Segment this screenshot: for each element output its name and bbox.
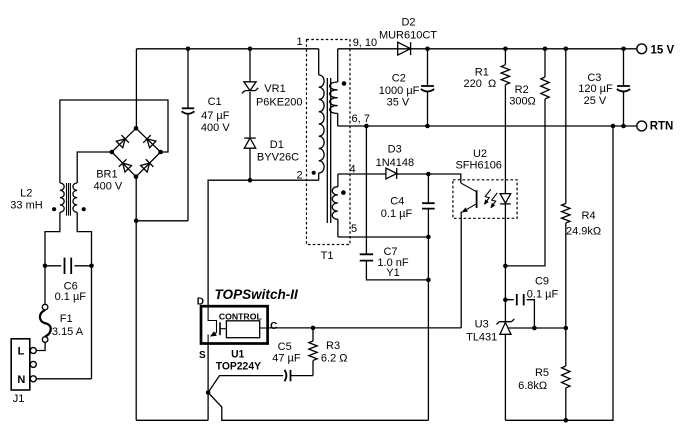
svg-text:TL431: TL431 <box>466 331 497 343</box>
node C6 left <box>43 264 48 269</box>
diode D1 <box>244 138 299 163</box>
node C1 return junction <box>134 219 139 224</box>
optocoupler U2 phototransistor <box>460 183 476 215</box>
node R3 top on control line <box>311 326 316 331</box>
svg-text:6.8kΩ: 6.8kΩ <box>518 380 547 392</box>
capacitor C2 <box>379 49 434 126</box>
wire pin4 line to D3 and opto collector <box>338 174 461 183</box>
svg-text:D1: D1 <box>270 139 284 151</box>
resistor R1 <box>464 49 510 194</box>
node LED cathode / R2 junction <box>503 264 508 269</box>
svg-text:1: 1 <box>296 36 302 48</box>
capacitor C1 <box>182 49 231 221</box>
wire BR1 left vertex to L2 right winding <box>77 152 112 183</box>
terminal RTN <box>637 121 674 133</box>
svg-text:TOP224Y: TOP224Y <box>216 361 262 373</box>
node R2 top <box>543 47 548 52</box>
svg-text:47 µF: 47 µF <box>201 110 230 122</box>
U1 internal MOSFET <box>208 305 226 345</box>
node C9 bottom on ref line <box>532 326 537 331</box>
node BR1 ac left <box>110 150 115 155</box>
wire left vertical from top rail to BR1 + <box>135 49 137 129</box>
svg-text:33 mH: 33 mH <box>10 200 42 212</box>
svg-text:D3: D3 <box>388 144 402 156</box>
resistor R3 <box>309 328 348 376</box>
node R5 bottom on ground rail <box>564 418 569 423</box>
svg-text:CONTROL: CONTROL <box>219 311 263 321</box>
node L2 dot left <box>52 207 56 211</box>
transformer T1 primary winding <box>319 49 324 180</box>
svg-text:1000 µF: 1000 µF <box>379 85 420 97</box>
node R4/R5 ref junction <box>564 326 569 331</box>
fuse F1 <box>36 304 83 350</box>
node C2 bottom <box>425 124 430 129</box>
svg-text:U3: U3 <box>475 319 489 331</box>
wire return line 6,7 to RTN <box>338 125 637 127</box>
resistor R5 <box>518 328 570 420</box>
svg-text:220 Ω: 220 Ω <box>464 78 497 90</box>
wire BR1 right vertex to L2 left winding <box>60 100 168 183</box>
svg-text:TOPSwitch-II: TOPSwitch-II <box>215 287 299 302</box>
wire N to C6 right leg <box>36 378 91 380</box>
svg-text:BYV26C: BYV26C <box>257 152 299 164</box>
capacitor C4 <box>381 174 435 420</box>
node T1 primary phase dot <box>312 171 316 175</box>
node C1 top <box>186 47 191 52</box>
wire VR1/D1 clamp branch <box>249 49 251 180</box>
svg-text:24.9kΩ: 24.9kΩ <box>566 226 601 238</box>
svg-text:C: C <box>270 321 277 332</box>
diode D2 <box>379 17 437 56</box>
svg-text:R3: R3 <box>326 340 340 352</box>
svg-text:D: D <box>197 297 204 308</box>
wire LED cathode to TL431 <box>504 204 506 322</box>
wire C1 return horizontal <box>136 220 188 222</box>
svg-text:F1: F1 <box>60 313 73 325</box>
svg-text:C2: C2 <box>392 72 406 84</box>
svg-text:P6KE200: P6KE200 <box>256 96 302 108</box>
svg-text:MUR610CT: MUR610CT <box>379 29 437 41</box>
capacitor C3 <box>578 49 630 126</box>
svg-text:400 V: 400 V <box>94 181 123 193</box>
wire control pin line to opto emitter <box>269 327 461 329</box>
node D1 anode junction <box>248 178 253 183</box>
bridge BR1 <box>94 128 161 192</box>
svg-text:300Ω: 300Ω <box>509 95 536 107</box>
svg-text:6.2 Ω: 6.2 Ω <box>321 353 348 365</box>
svg-text:400 V: 400 V <box>201 122 230 134</box>
wire secondary output line 9,10 to 15V <box>338 48 637 50</box>
svg-text:C1: C1 <box>208 96 222 108</box>
wire top rail primary (DC bus +) <box>136 48 318 50</box>
node L2 dot right <box>82 207 86 211</box>
optocoupler U2 box <box>453 180 517 219</box>
svg-text:L2: L2 <box>20 187 32 199</box>
svg-text:R1: R1 <box>475 67 489 79</box>
svg-text:9, 10: 9, 10 <box>353 37 377 49</box>
svg-text:R5: R5 <box>535 367 549 379</box>
node D3 cathode / C4 top <box>426 172 431 177</box>
svg-text:120 µF: 120 µF <box>578 83 613 95</box>
node RTN right edge branch <box>611 124 616 129</box>
IC U1 TOPSwitch-II block outline <box>201 306 268 343</box>
wire source jumper to secondary-side ground segment <box>208 393 428 421</box>
transformer T1 dashed box <box>307 40 351 245</box>
node C7 bottom junction <box>426 278 431 283</box>
svg-text:C4: C4 <box>390 196 404 208</box>
svg-text:25 V: 25 V <box>584 95 607 107</box>
svg-text:35 V: 35 V <box>387 97 410 109</box>
optocoupler U2 LED <box>500 194 511 204</box>
svg-text:S: S <box>199 350 206 361</box>
node C3 bottom <box>621 124 626 129</box>
connector J1 <box>11 339 36 405</box>
U1 internal CONTROL block <box>219 311 269 337</box>
node R4 top <box>564 47 569 52</box>
shunt regulator U3 TL431 <box>466 319 514 421</box>
node R1 top <box>503 47 508 52</box>
capacitor C7 <box>360 126 429 280</box>
optocoupler U2 light arrows <box>482 189 497 209</box>
svg-text:R2: R2 <box>515 84 529 96</box>
resistor R2 <box>505 49 549 266</box>
svg-text:47 µF: 47 µF <box>272 353 301 365</box>
node T1 bias phase dot <box>341 190 346 195</box>
node U1 source junction <box>206 390 211 395</box>
node BR1 ac right <box>158 150 163 155</box>
svg-text:N: N <box>17 374 25 386</box>
svg-text:BR1: BR1 <box>96 168 117 180</box>
svg-text:0.1 µF: 0.1 µF <box>55 291 87 303</box>
capacitor C9 <box>505 276 558 329</box>
choke L2 <box>10 183 77 216</box>
wire primary ground rail left <box>136 419 208 421</box>
svg-text:Y1: Y1 <box>386 267 399 279</box>
wire L2 left bottom to C6/F1 <box>45 212 60 304</box>
svg-text:2: 2 <box>296 170 302 182</box>
svg-text:15 V: 15 V <box>651 45 675 57</box>
svg-text:0.1 µF: 0.1 µF <box>381 208 413 220</box>
wire opto emitter down to control line <box>460 212 462 328</box>
wire L2 right bottom to C6/N <box>77 212 91 379</box>
node C6 right <box>89 264 94 269</box>
svg-text:VR1: VR1 <box>264 83 285 95</box>
node VR1 top <box>248 47 253 52</box>
svg-text:L: L <box>18 346 25 358</box>
terminal 15 V <box>637 44 675 57</box>
wire pin5 line <box>338 236 429 238</box>
transformer T1 bias winding <box>332 174 338 237</box>
svg-text:6, 7: 6, 7 <box>352 113 370 125</box>
svg-text:C5: C5 <box>278 341 292 353</box>
resistor R4 <box>562 49 602 328</box>
node T1 secondary phase dot <box>342 81 347 86</box>
svg-text:C9: C9 <box>535 276 549 288</box>
node D2 cathode / C2 top <box>425 47 430 52</box>
capacitor C5 <box>208 341 313 393</box>
TVS VR1 <box>242 82 303 109</box>
node C7 top on RTN line <box>364 124 369 129</box>
node BR1 - <box>134 174 139 179</box>
capacitor C6 <box>45 258 92 303</box>
svg-text:U1: U1 <box>231 349 244 361</box>
svg-text:R4: R4 <box>582 210 596 222</box>
svg-text:D2: D2 <box>401 17 415 29</box>
wire pin2 line to TOPSwitch drain <box>208 180 319 306</box>
diode D3 <box>376 144 415 179</box>
wire TL431 ref line to R4/R5 divider <box>509 327 566 329</box>
svg-text:RTN: RTN <box>650 121 674 133</box>
svg-text:SFH6106: SFH6106 <box>455 159 501 171</box>
svg-text:J1: J1 <box>13 393 25 405</box>
node C3 top <box>621 47 626 52</box>
node BR1 + <box>134 126 139 131</box>
wire U1 source pin down <box>207 345 209 420</box>
svg-text:0.1 µF: 0.1 µF <box>527 288 559 300</box>
svg-text:T1: T1 <box>321 250 334 262</box>
transformer T1 core <box>327 78 330 223</box>
wire BR1 minus down to C1 return junction and primary ground rail <box>135 177 137 421</box>
node pin5 / C4 bottom <box>426 235 431 240</box>
svg-text:3.15 A: 3.15 A <box>52 326 84 338</box>
svg-text:5: 5 <box>351 223 357 235</box>
svg-text:U2: U2 <box>473 148 487 160</box>
transformer T1 secondary winding <box>330 49 338 126</box>
svg-text:1N4148: 1N4148 <box>376 157 415 169</box>
wire right edge RTN to secondary ground rail <box>505 126 613 420</box>
node C9 branch junction <box>503 297 508 302</box>
